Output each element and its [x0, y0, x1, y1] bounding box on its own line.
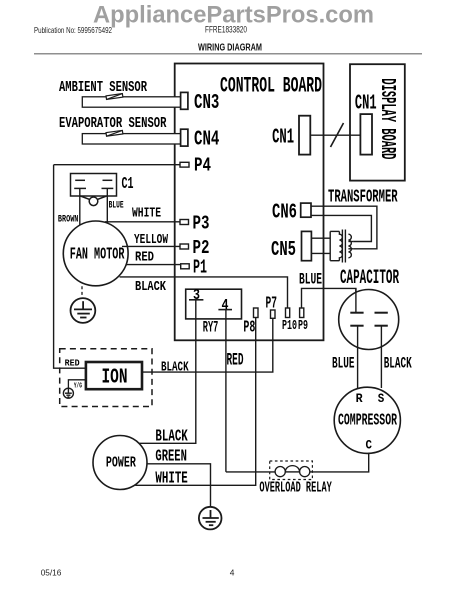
wire RY7-3 to power black	[139, 300, 196, 444]
svg-text:C1: C1	[122, 175, 134, 194]
wire blue capacitor to compressor	[357, 326, 359, 390]
connector CN6	[301, 203, 311, 217]
svg-text:CONTROL BOARD: CONTROL BOARD	[220, 73, 322, 98]
ambient sensor thermistor	[106, 94, 123, 100]
wire Y/G	[68, 380, 86, 389]
svg-text:DISPLAY BOARD: DISPLAY BOARD	[375, 78, 398, 159]
svg-text:RED: RED	[65, 358, 80, 369]
bus slash	[331, 123, 344, 147]
pin P7	[271, 310, 276, 318]
svg-text:WHITE: WHITE	[155, 469, 187, 488]
svg-text:ION: ION	[102, 367, 128, 390]
wire CN1-CN1	[310, 134, 360, 136]
svg-text:CN1: CN1	[272, 126, 294, 149]
pin P9	[300, 308, 304, 318]
relay RY7	[186, 289, 242, 319]
svg-text:WHITE: WHITE	[132, 207, 161, 222]
wire to P4	[54, 164, 180, 166]
pin P4	[180, 162, 189, 167]
wire white	[105, 221, 180, 223]
svg-text:BLUE: BLUE	[332, 354, 355, 372]
svg-text:S: S	[378, 391, 385, 406]
wire left trunk	[54, 165, 86, 369]
capacitor C1	[71, 174, 117, 206]
header rule	[34, 53, 422, 55]
pin P8	[254, 308, 259, 318]
connector CN3	[181, 92, 188, 109]
connector CN1 control	[299, 116, 310, 155]
wire blue (C1)	[106, 188, 108, 223]
svg-text:CN4: CN4	[194, 128, 219, 152]
control board U-CB	[175, 64, 324, 341]
run capacitor	[339, 288, 399, 349]
svg-text:RED: RED	[135, 250, 154, 265]
wire black capacitor to compressor	[380, 326, 382, 388]
svg-text:P10: P10	[282, 318, 297, 334]
svg-text:P7: P7	[266, 295, 278, 314]
svg-text:TRANSFORMER: TRANSFORMER	[328, 188, 398, 208]
wire RY7-4 to overload relay	[226, 471, 275, 473]
svg-text:CN3: CN3	[194, 91, 219, 115]
overload relay heater element	[285, 471, 299, 473]
svg-text:CN6: CN6	[272, 200, 297, 224]
svg-text:POWER: POWER	[106, 454, 136, 471]
svg-text:EVAPORATOR SENSOR: EVAPORATOR SENSOR	[59, 116, 167, 132]
svg-text:BROWN: BROWN	[58, 213, 79, 225]
C1 body	[71, 174, 117, 197]
connector CN1 display	[360, 114, 372, 155]
svg-text:AMBIENT SENSOR: AMBIENT SENSOR	[59, 80, 147, 96]
svg-text:WIRING DIAGRAM: WIRING DIAGRAM	[198, 42, 262, 53]
svg-text:4: 4	[222, 297, 229, 314]
C1 common terminal funnel	[81, 196, 91, 200]
pin P1	[181, 264, 190, 269]
power plug M3	[93, 436, 147, 490]
pin P2	[180, 244, 189, 249]
compressor M2	[334, 387, 400, 453]
wire RY7-4 to overload	[225, 310, 227, 472]
wire blue P9 to capacitor	[302, 288, 356, 312]
evaporator sensor thermistor	[106, 130, 123, 136]
svg-text:05/16: 05/16	[41, 568, 62, 578]
transformer primary winding	[329, 231, 331, 260]
svg-text:R: R	[356, 391, 363, 406]
svg-text:OVERLOAD RELAY: OVERLOAD RELAY	[259, 480, 331, 497]
wire compressor C to overload	[312, 453, 368, 472]
transformer secondary winding	[348, 234, 351, 258]
svg-text:Y/G: Y/G	[74, 382, 82, 390]
pin P3	[180, 220, 189, 225]
ION dashed enclosure	[60, 349, 152, 407]
ground (power)	[199, 507, 222, 530]
display board U-DB	[350, 64, 405, 180]
wire red	[126, 264, 181, 266]
svg-text:COMPRESSOR: COMPRESSOR	[338, 412, 397, 431]
wire P8 to power white	[135, 318, 256, 486]
connector CN5	[302, 231, 312, 260]
svg-text:FFRE1833820: FFRE1833820	[205, 24, 247, 34]
svg-text:P9: P9	[298, 318, 308, 334]
transformer T1	[330, 230, 353, 263]
wire CN6 lower	[311, 215, 371, 241]
ION generator box	[86, 362, 142, 389]
wire CN6 upper	[311, 206, 377, 249]
wire black fan to P10	[120, 277, 288, 308]
svg-text:BLACK: BLACK	[384, 354, 412, 372]
svg-text:BLUE: BLUE	[299, 271, 322, 289]
ground (fan motor)	[71, 298, 96, 323]
svg-text:BLUE: BLUE	[109, 200, 124, 212]
C1 right section plates	[103, 179, 113, 181]
wire P7 to ION	[142, 318, 273, 372]
wire yellow	[122, 245, 180, 247]
svg-text:YELLOW: YELLOW	[134, 233, 169, 248]
svg-text:FAN MOTOR: FAN MOTOR	[70, 245, 125, 264]
C1 left section plates	[75, 179, 85, 181]
svg-text:BLACK: BLACK	[135, 280, 167, 295]
wire brown	[79, 188, 81, 225]
wire dashed to ground	[81, 286, 83, 299]
ambient sensor body	[82, 97, 180, 107]
svg-text:BLACK: BLACK	[155, 427, 188, 446]
evaporator sensor body	[82, 134, 180, 144]
pin P10	[286, 308, 290, 318]
wire CN5 lower	[311, 252, 330, 254]
svg-text:C: C	[366, 438, 373, 453]
overload relay	[226, 461, 313, 480]
svg-text:P3: P3	[193, 213, 210, 235]
svg-text:P1: P1	[193, 256, 207, 278]
wire CN5 upper	[311, 237, 330, 239]
svg-text:P4: P4	[194, 155, 211, 177]
svg-text:P8: P8	[243, 319, 255, 338]
wire green to ground	[147, 464, 211, 507]
svg-text:BLACK: BLACK	[161, 360, 189, 376]
overload relay enclosure (dashed)	[270, 461, 313, 480]
svg-text:Publication No: 5995675492: Publication No: 5995675492	[34, 25, 112, 35]
fan motor M1	[63, 221, 128, 286]
svg-text:CAPACITOR: CAPACITOR	[340, 267, 399, 290]
transformer core	[341, 230, 343, 263]
svg-text:RED: RED	[227, 351, 244, 371]
ground (Y/G)	[63, 388, 73, 398]
svg-text:CN1: CN1	[355, 91, 377, 115]
svg-text:4: 4	[230, 568, 235, 578]
connector CN4	[181, 129, 188, 146]
svg-text:CN5: CN5	[271, 238, 296, 262]
svg-text:RY7: RY7	[203, 319, 219, 337]
